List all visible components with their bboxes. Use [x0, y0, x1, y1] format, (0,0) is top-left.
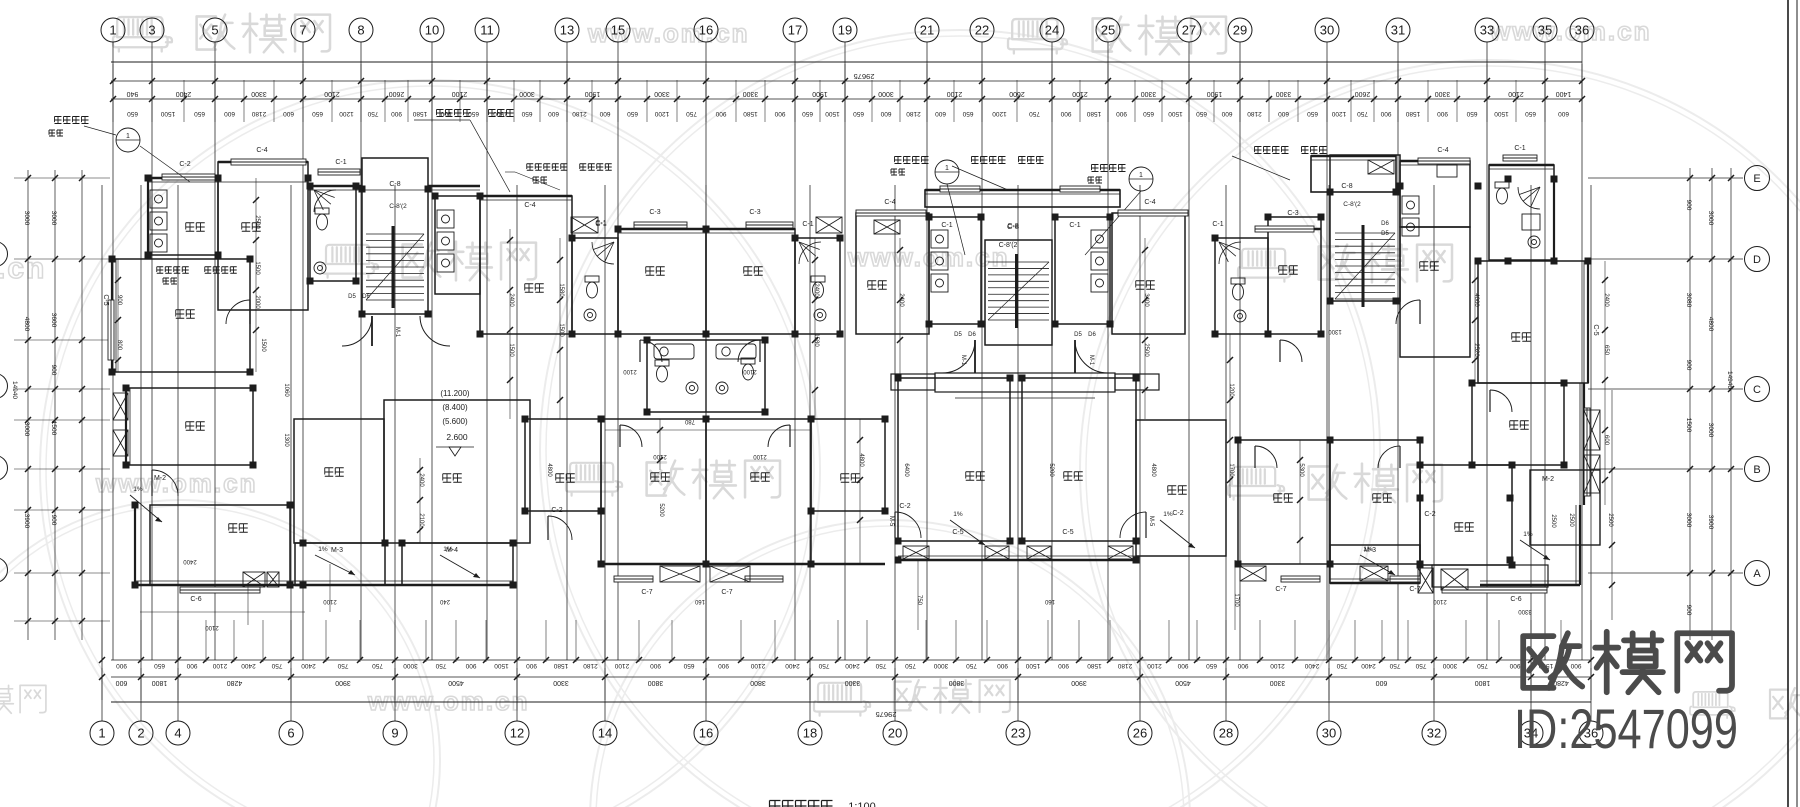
porch wing west — [891, 374, 935, 390]
bay window xbox M4 b — [710, 566, 750, 582]
room dining right — [1400, 227, 1470, 357]
balcony M-3 room — [295, 543, 385, 585]
svg-text:3000: 3000 — [50, 211, 57, 226]
grid bubble top 22 — [970, 18, 994, 42]
core top protrusion — [925, 190, 1120, 207]
svg-text:14940: 14940 — [1726, 371, 1733, 389]
label D5 D6 left — [348, 294, 370, 300]
right stair protrusion — [1311, 156, 1396, 192]
svg-text:D: D — [1753, 254, 1761, 266]
svg-text:900: 900 — [186, 662, 197, 669]
svg-text:3000: 3000 — [1707, 423, 1714, 438]
svg-text:1500: 1500 — [508, 343, 514, 357]
svg-text:1500: 1500 — [825, 110, 840, 117]
watermark tile om.cn left-mid edge — [0, 252, 46, 285]
svg-text:C-7: C-7 — [721, 589, 732, 596]
grid bubble letter partial left edge — [0, 558, 8, 583]
svg-text:3800: 3800 — [648, 679, 664, 686]
bay window xbox left-bay a — [243, 572, 265, 587]
svg-text:C-8'(2: C-8'(2 — [1343, 201, 1361, 208]
svg-text:4280: 4280 — [227, 679, 243, 686]
svg-text:1: 1 — [945, 165, 949, 172]
svg-text:2100: 2100 — [452, 90, 468, 97]
svg-text:31: 31 — [1391, 23, 1405, 38]
svg-text:C: C — [1753, 384, 1761, 396]
svg-text:2600: 2600 — [389, 90, 405, 97]
svg-text:3000: 3000 — [1707, 211, 1714, 226]
svg-text:2180: 2180 — [1117, 662, 1132, 669]
grid bubble top 31 — [1386, 18, 1410, 42]
bay window xbox study right2 — [1584, 455, 1600, 493]
label C-2 right — [1424, 511, 1435, 518]
kitchen right — [1400, 161, 1470, 227]
svg-text:C-2: C-2 — [551, 507, 562, 514]
svg-text:www.om.cn: www.om.cn — [367, 686, 530, 716]
room living C west — [898, 378, 1010, 541]
bay window xbox left edge — [113, 393, 128, 420]
svg-text:2520: 2520 — [1473, 343, 1479, 357]
svg-text:2400: 2400 — [1603, 293, 1609, 307]
bath top-right — [1489, 165, 1554, 260]
grid bubble top 5 — [203, 18, 227, 42]
svg-text:900: 900 — [715, 110, 726, 117]
svg-text:1: 1 — [126, 133, 130, 140]
svg-text:1%: 1% — [133, 486, 143, 493]
svg-text:650: 650 — [802, 110, 813, 117]
entry door arc left core M-1 — [342, 316, 450, 346]
grid bubble bottom 1 — [90, 721, 114, 745]
grid bubble bottom 20 — [883, 721, 907, 745]
svg-text:C-5: C-5 — [1592, 324, 1599, 335]
svg-text:2400: 2400 — [1304, 662, 1319, 669]
svg-text:1300: 1300 — [1328, 328, 1342, 334]
grid bubble top 17 — [783, 18, 807, 42]
svg-text:2400: 2400 — [845, 662, 860, 669]
svg-text:3000: 3000 — [519, 90, 535, 97]
label D6 right — [1381, 221, 1389, 237]
svg-text:650: 650 — [1307, 110, 1318, 117]
svg-text:900: 900 — [1058, 662, 1069, 669]
grid bubble bottom 9 — [383, 721, 407, 745]
svg-text:M-1: M-1 — [960, 355, 966, 366]
svg-text:3600: 3600 — [50, 313, 57, 328]
svg-text:7: 7 — [299, 23, 306, 38]
bath mid-right — [1215, 238, 1268, 334]
watermark tile sofa+logo mid-left — [322, 242, 536, 281]
door arc M-2 study — [152, 470, 178, 496]
door arc study right — [1490, 390, 1512, 412]
svg-text:1060: 1060 — [283, 383, 289, 397]
window C-1 bedA — [595, 220, 606, 227]
svg-text:160: 160 — [694, 598, 705, 604]
grid bubble letter D right — [1745, 247, 1770, 272]
svg-text:1:100: 1:100 — [848, 801, 876, 807]
svg-text:1900: 1900 — [1207, 90, 1223, 97]
bay window xbox stair right top — [1368, 160, 1394, 174]
svg-text:2500: 2500 — [1568, 513, 1574, 527]
room bedroom left-bay — [150, 505, 290, 585]
svg-text:750: 750 — [875, 662, 886, 669]
svg-text:30: 30 — [1320, 23, 1334, 38]
svg-text:1500: 1500 — [558, 323, 564, 337]
svg-text:1700: 1700 — [1228, 463, 1234, 477]
grid bubble top 29 — [1228, 18, 1252, 42]
room master B — [706, 419, 811, 564]
svg-text:1580: 1580 — [1086, 110, 1101, 117]
row grid lines to letter bubbles right — [1588, 178, 1743, 573]
svg-text:D5: D5 — [954, 332, 962, 338]
svg-text:C-3: C-3 — [649, 209, 660, 216]
svg-text:750: 750 — [372, 662, 383, 669]
bottom dimension chain row2 — [99, 668, 1594, 700]
door arc bed mid-right — [1280, 340, 1302, 362]
svg-text:900: 900 — [1509, 662, 1520, 669]
bay window xbox study right — [1584, 410, 1600, 450]
svg-text:3080: 3080 — [1685, 293, 1692, 308]
svg-text:650: 650 — [312, 110, 323, 117]
svg-text:3000: 3000 — [23, 422, 30, 437]
room study left — [126, 388, 253, 465]
svg-text:5300: 5300 — [1298, 463, 1304, 477]
window C-6 left-bay — [180, 587, 260, 603]
bay window xbox core left — [874, 220, 900, 234]
label C-4 mid — [524, 202, 535, 209]
svg-text:750: 750 — [435, 662, 446, 669]
watermark tile logo bottom-left edge — [0, 685, 46, 714]
svg-text:35: 35 — [1538, 23, 1552, 38]
grid bubble top 7 — [291, 18, 315, 42]
svg-text:750: 750 — [1357, 110, 1368, 117]
svg-text:6400: 6400 — [903, 463, 909, 477]
grid bubble top 13 — [555, 18, 579, 42]
window C-4 core-west — [856, 199, 926, 216]
svg-text:750: 750 — [1029, 110, 1040, 117]
door arc masterA — [620, 425, 642, 447]
svg-text:M-5: M-5 — [1148, 516, 1154, 527]
svg-text:2180: 2180 — [572, 110, 587, 117]
svg-text:D6: D6 — [1381, 221, 1389, 227]
svg-text:22: 22 — [975, 23, 989, 38]
svg-text:32: 32 — [1427, 726, 1441, 741]
svg-text:3300: 3300 — [654, 90, 670, 97]
watermark tile www.om.cn mid-center — [847, 242, 1010, 272]
room living C east — [1022, 378, 1136, 541]
entry porch center — [935, 373, 1115, 398]
svg-text:1: 1 — [1139, 172, 1143, 179]
svg-text:3900: 3900 — [335, 679, 351, 686]
room master C — [1238, 440, 1330, 564]
svg-text:1200: 1200 — [992, 110, 1007, 117]
svg-text:C-8: C-8 — [1007, 222, 1019, 231]
svg-text:900: 900 — [50, 365, 57, 376]
svg-text:1200: 1200 — [339, 110, 354, 117]
svg-text:C-1: C-1 — [941, 222, 952, 229]
window C-4 core-east — [1118, 199, 1188, 216]
svg-text:900: 900 — [116, 295, 122, 306]
double wall lines exterior — [116, 160, 1584, 585]
svg-text:900: 900 — [1380, 110, 1391, 117]
bay window xbox left edge2 — [113, 430, 128, 456]
window C-5 left edge — [102, 294, 114, 360]
grid bubble top 25 — [1096, 18, 1120, 42]
svg-text:4800: 4800 — [546, 463, 552, 477]
svg-text:750: 750 — [905, 662, 916, 669]
svg-text:C-4: C-4 — [884, 199, 895, 206]
svg-text:3000: 3000 — [878, 90, 894, 97]
svg-text:2180: 2180 — [583, 662, 598, 669]
label C-1 core east — [1069, 222, 1080, 229]
interior dimension texts — [116, 215, 1609, 630]
right inner dim line — [1607, 390, 1615, 620]
svg-text:24: 24 — [1045, 23, 1059, 38]
svg-text:2400: 2400 — [898, 293, 904, 307]
svg-text:3300: 3300 — [743, 90, 759, 97]
svg-text:M-3: M-3 — [1364, 547, 1376, 554]
svg-text:3900: 3900 — [1071, 679, 1087, 686]
fixtures bath middle pair — [654, 340, 756, 412]
vertical grid lines from top bubbles — [113, 42, 1582, 660]
svg-text:1580: 1580 — [558, 283, 564, 297]
svg-text:900: 900 — [1116, 110, 1127, 117]
grid bubble bottom 32 — [1422, 721, 1446, 745]
svg-text:2100: 2100 — [614, 662, 629, 669]
svg-text:27: 27 — [1182, 23, 1196, 38]
svg-text:750: 750 — [1389, 662, 1400, 669]
svg-text:D6: D6 — [362, 294, 370, 300]
bottom dimension overall line — [111, 702, 1591, 719]
svg-text:1580: 1580 — [813, 333, 819, 347]
watermark tile sofa+logo top-right — [1008, 16, 1226, 55]
grid bubble letter C right — [1745, 377, 1770, 402]
label C-5 center east — [1062, 529, 1073, 536]
grid bubble bottom 12 — [505, 721, 529, 745]
entry door arc center east M-1 — [1075, 340, 1108, 373]
svg-text:600: 600 — [1603, 435, 1609, 446]
svg-text:C-6: C-6 — [190, 596, 201, 603]
window C-7 right a — [1275, 576, 1320, 593]
svg-text:2100: 2100 — [323, 598, 337, 604]
annotation 2002 center-west with bubble — [891, 157, 965, 256]
annotation door canopy right — [1232, 147, 1327, 181]
stair core right — [1330, 155, 1400, 301]
window C-6 right-bay — [1442, 587, 1547, 603]
porch wing east — [1115, 374, 1159, 390]
fixtures kitchen left counters — [150, 190, 167, 252]
svg-text:B: B — [1753, 464, 1760, 476]
svg-text:C-4: C-4 — [1144, 199, 1155, 206]
svg-text:C-8: C-8 — [1341, 183, 1352, 190]
stair core center — [985, 240, 1052, 345]
svg-text:C-7: C-7 — [1275, 586, 1286, 593]
bay window xbox C-5 a — [903, 546, 929, 559]
svg-text:1500: 1500 — [493, 110, 508, 117]
door arc C-2 balcony mid-e — [1120, 512, 1146, 538]
fixtures core kitchens — [931, 230, 1108, 292]
svg-text:3300: 3300 — [1518, 608, 1532, 614]
svg-text:1500: 1500 — [50, 421, 57, 436]
svg-text:900: 900 — [1237, 662, 1248, 669]
svg-text:650: 650 — [521, 110, 532, 117]
door arc living-left — [226, 300, 250, 324]
svg-text:900: 900 — [1570, 662, 1581, 669]
svg-text:2100: 2100 — [1270, 662, 1285, 669]
svg-text:29675: 29675 — [876, 710, 897, 719]
svg-text:2500: 2500 — [254, 215, 260, 229]
corner id text — [1514, 697, 1738, 760]
svg-text:2100: 2100 — [750, 662, 765, 669]
label C-1 flankA — [595, 221, 606, 228]
outer wall right edge — [1554, 179, 1588, 585]
svg-text:C-5: C-5 — [1062, 529, 1073, 536]
svg-text:M-5: M-5 — [888, 516, 894, 527]
bay window xbox C-5 d — [1108, 546, 1133, 559]
svg-text:8: 8 — [357, 23, 364, 38]
room master unitA left — [294, 419, 384, 543]
annotation 2002 center-east with bubble — [1085, 165, 1153, 256]
grid bubble letter partial left edge — [0, 374, 8, 399]
svg-text:C-4: C-4 — [524, 202, 535, 209]
svg-text:4800: 4800 — [1707, 317, 1714, 332]
svg-text:C-5: C-5 — [102, 294, 109, 305]
svg-text:C-1: C-1 — [1212, 221, 1223, 228]
door arc bedA — [640, 340, 662, 362]
top dimension chain overall line — [111, 62, 1582, 81]
svg-text:1: 1 — [98, 726, 105, 741]
window C-4 core prot — [940, 186, 980, 192]
svg-text:650: 650 — [853, 110, 864, 117]
outer wall left edge — [112, 178, 148, 585]
svg-text:2100: 2100 — [653, 453, 667, 459]
watermark tile www.om.cn row3-left — [95, 468, 258, 498]
balcony M-3 room right — [1330, 545, 1420, 583]
svg-text:C-3: C-3 — [749, 209, 760, 216]
slope arrow right bay — [1520, 531, 1550, 560]
bottom caption partially clipped — [770, 801, 876, 807]
top dimension chain row2 — [110, 80, 1585, 122]
svg-text:2100: 2100 — [1147, 662, 1162, 669]
grid bubble top 10 — [420, 18, 444, 42]
svg-text:C-7: C-7 — [641, 589, 652, 596]
bay window xbox C-5 b — [985, 546, 1009, 559]
svg-text:33: 33 — [1480, 23, 1494, 38]
room living right — [1478, 261, 1588, 383]
svg-text:3300: 3300 — [553, 679, 569, 686]
svg-text:C-3: C-3 — [1287, 210, 1298, 217]
drawing sheet right border — [1788, 0, 1797, 807]
svg-text:25: 25 — [1101, 23, 1115, 38]
svg-text:2100: 2100 — [212, 662, 227, 669]
label M-3 right — [1364, 547, 1376, 554]
watermark tile sofa+logo row3-center — [566, 460, 780, 499]
bay window xbox right-bay — [1418, 568, 1433, 593]
svg-text:1: 1 — [109, 23, 116, 38]
svg-text:2180: 2180 — [906, 110, 921, 117]
svg-text:900: 900 — [1685, 605, 1692, 616]
svg-text:19: 19 — [838, 23, 852, 38]
svg-text:1580: 1580 — [743, 110, 758, 117]
svg-text:650: 650 — [468, 110, 479, 117]
room dining mid-left — [480, 196, 572, 334]
svg-text:900: 900 — [116, 662, 127, 669]
svg-text:1500: 1500 — [254, 261, 260, 275]
room dining core-west — [856, 213, 929, 334]
svg-text:13: 13 — [560, 23, 574, 38]
window core C-8 label — [1007, 223, 1018, 230]
corner logo text dark — [1523, 632, 1732, 692]
label C-2 mid-west — [899, 503, 910, 510]
svg-text:15: 15 — [611, 23, 625, 38]
svg-text:750: 750 — [271, 662, 282, 669]
window C-3 mid-right — [1255, 210, 1314, 232]
svg-text:2100: 2100 — [623, 368, 637, 374]
fixtures bath top-right — [1495, 182, 1540, 248]
annotation 2002 left with bubble — [49, 117, 190, 183]
svg-text:ID:2547099: ID:2547099 — [1514, 697, 1738, 760]
svg-text:3300: 3300 — [251, 90, 267, 97]
window C-5 right edge — [1584, 324, 1599, 496]
svg-text:1580: 1580 — [1405, 110, 1420, 117]
svg-text:C-1: C-1 — [595, 221, 606, 228]
interior dimension lines — [118, 178, 1605, 630]
svg-text:1900: 1900 — [585, 90, 601, 97]
slope arrow right M-3 — [1360, 546, 1395, 575]
outer wall top runs — [148, 156, 1554, 229]
label C-1 core west — [941, 222, 952, 229]
window C-4 left — [231, 147, 306, 165]
svg-text:1580: 1580 — [412, 110, 427, 117]
svg-text:C-8'(2: C-8'(2 — [999, 242, 1018, 249]
bay lower right outline — [1432, 565, 1548, 587]
grid bubble bottom 16 — [694, 721, 718, 745]
svg-text:2100: 2100 — [205, 624, 219, 630]
fixtures bath flank right — [799, 242, 826, 321]
svg-text:D5: D5 — [348, 294, 356, 300]
fixtures kitchen2 counters — [437, 210, 454, 272]
grid bubble top 35 — [1533, 18, 1557, 42]
svg-text:650: 650 — [194, 110, 205, 117]
svg-text:1580: 1580 — [1087, 662, 1102, 669]
window C-7 west pair b — [721, 576, 783, 596]
right dimension chain — [1685, 168, 1734, 640]
svg-text:1500: 1500 — [1494, 110, 1509, 117]
annotation pvc pipe — [505, 164, 612, 190]
fixtures bath mid-right — [1219, 242, 1246, 322]
svg-text:900: 900 — [391, 110, 402, 117]
svg-text:21: 21 — [920, 23, 934, 38]
room bedroom small B — [811, 419, 885, 511]
svg-text:4500: 4500 — [448, 679, 464, 686]
svg-text:(8.400): (8.400) — [442, 403, 468, 412]
slope arrow mid-east — [1160, 511, 1195, 548]
svg-text:3000: 3000 — [23, 211, 30, 226]
svg-text:900: 900 — [1685, 200, 1692, 211]
svg-text:650: 650 — [1603, 345, 1609, 356]
svg-text:2180: 2180 — [1247, 110, 1262, 117]
svg-text:3300: 3300 — [1270, 679, 1286, 686]
svg-text:20: 20 — [888, 726, 902, 741]
svg-text:12: 12 — [510, 726, 524, 741]
svg-text:650: 650 — [1466, 110, 1477, 117]
svg-text:4800: 4800 — [23, 317, 30, 332]
svg-text:750: 750 — [1336, 662, 1347, 669]
svg-text:1200: 1200 — [1228, 383, 1234, 397]
svg-text:600: 600 — [880, 110, 891, 117]
svg-text:600: 600 — [935, 110, 946, 117]
svg-text:2400: 2400 — [176, 90, 192, 97]
svg-text:3000: 3000 — [403, 662, 418, 669]
bay window xbox right-bay2 — [1441, 569, 1468, 590]
level annotation stack — [436, 389, 474, 456]
